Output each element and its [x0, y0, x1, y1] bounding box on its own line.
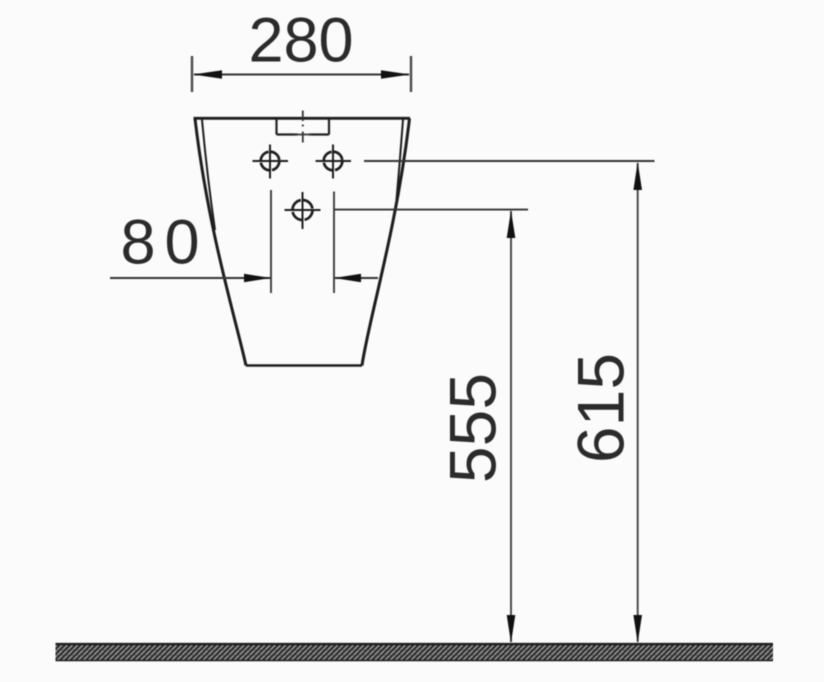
- svg-text:615: 615: [564, 353, 638, 463]
- svg-text:80: 80: [120, 208, 208, 278]
- svg-text:280: 280: [248, 6, 353, 76]
- svg-text:555: 555: [436, 373, 510, 483]
